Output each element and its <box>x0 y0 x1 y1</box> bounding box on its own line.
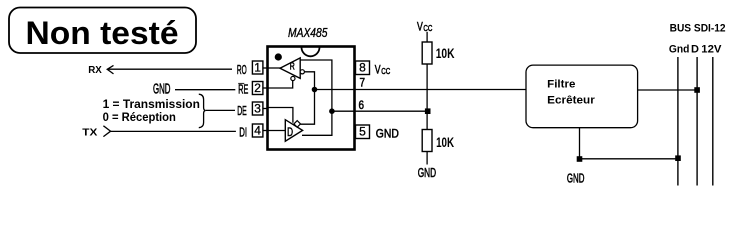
wire pin3 stub <box>263 108 268 110</box>
junction dot riser <box>577 156 583 162</box>
wire R2 to GND <box>426 152 428 165</box>
wire pin4 stub <box>263 130 268 132</box>
wire pin3 to driver enable <box>268 108 293 123</box>
svg-text:Gnd: Gnd <box>669 44 690 56</box>
svg-text:10K: 10K <box>436 45 455 61</box>
receiver R triangle <box>280 58 300 79</box>
wire driver B output <box>301 90 315 125</box>
wire Vcc to R1 <box>426 32 428 42</box>
wire driver A output <box>302 111 332 135</box>
brace <box>199 94 206 128</box>
wire pin1 to receiver apex <box>268 67 281 69</box>
wire pin2 stub <box>263 87 268 89</box>
junction dot bus Gnd <box>675 155 681 161</box>
pin box 8 <box>356 61 370 75</box>
filter box <box>526 65 638 128</box>
wire RX to RO <box>107 68 232 70</box>
svg-text:D: D <box>287 125 293 139</box>
receiver enable bubble <box>291 76 295 80</box>
svg-text:7: 7 <box>360 78 366 90</box>
driver D triangle <box>285 120 302 142</box>
label "Non testé" box <box>9 8 196 54</box>
junction dot bus D <box>694 87 700 93</box>
wire receiver A input <box>300 60 332 111</box>
svg-text:RO: RO <box>237 62 247 77</box>
chip notch <box>302 47 320 56</box>
bus wire 12V <box>712 57 714 186</box>
svg-text:6: 6 <box>359 100 365 112</box>
svg-text:GND: GND <box>153 81 171 98</box>
driver inverting-output diamond <box>294 121 301 128</box>
svg-text:5: 5 <box>359 125 366 139</box>
wire filter to bus D <box>638 89 698 91</box>
svg-text:GND: GND <box>418 166 436 180</box>
wire pin1 stub <box>263 67 268 69</box>
svg-text:V: V <box>375 63 381 77</box>
svg-text:2: 2 <box>254 81 261 95</box>
RE overline <box>238 83 244 85</box>
svg-text:GND: GND <box>567 171 585 185</box>
svg-text:1: 1 <box>254 60 261 74</box>
bus wire Gnd <box>677 57 679 186</box>
svg-text:D: D <box>691 44 699 56</box>
resistor R2 10K <box>422 130 432 152</box>
junction dot net B <box>312 87 318 93</box>
svg-text:0 = Réception: 0 = Réception <box>103 110 176 124</box>
wire pin4 to driver input <box>268 130 286 132</box>
svg-text:TX: TX <box>82 126 97 138</box>
junction dot pulldown <box>425 108 431 114</box>
svg-text:Filtre: Filtre <box>547 79 575 91</box>
svg-text:1 = Transmission: 1 = Transmission <box>103 97 200 111</box>
wire pin6 line <box>332 110 428 112</box>
pin box 2 <box>252 82 263 95</box>
svg-text:3: 3 <box>254 101 261 115</box>
wire pin2 to RE bubble <box>268 81 293 88</box>
pin box 1 <box>252 61 263 74</box>
resistor R1 10K <box>422 42 432 64</box>
svg-text:R: R <box>290 62 295 73</box>
pin-1 marker dot <box>275 53 282 60</box>
pin box 5 <box>356 125 370 139</box>
svg-text:DE: DE <box>237 103 247 118</box>
wire GND to RE <box>175 89 235 91</box>
wire TX to DI <box>111 130 236 132</box>
svg-text:MAX485: MAX485 <box>288 26 328 40</box>
pin box 4 <box>252 124 263 137</box>
wire filter GND riser <box>579 128 581 159</box>
svg-text:10K: 10K <box>436 134 454 150</box>
pin box 3 <box>252 102 263 115</box>
svg-text:4: 4 <box>254 123 261 137</box>
chevron TX <box>103 126 110 137</box>
wire pin7 line <box>315 89 527 91</box>
svg-text:V: V <box>417 20 423 34</box>
svg-text:Non testé: Non testé <box>26 15 179 51</box>
op-amp U1 MAX485 chip body <box>268 47 355 150</box>
svg-text:CC: CC <box>423 23 432 33</box>
junction dot net A <box>329 108 335 114</box>
wire brace to DE <box>206 109 235 111</box>
svg-text:8: 8 <box>359 61 366 75</box>
svg-text:Ecrêteur: Ecrêteur <box>547 94 595 106</box>
svg-text:RX: RX <box>88 64 102 76</box>
wire receiver B input <box>304 72 314 90</box>
wire GND to bus Gnd <box>580 158 679 160</box>
bus wire D <box>696 57 698 186</box>
svg-text:BUS SDI-12: BUS SDI-12 <box>670 23 726 35</box>
svg-text:12V: 12V <box>701 44 722 56</box>
wire R1 to R2 <box>426 64 428 130</box>
arrow head RX <box>107 65 113 74</box>
svg-text:GND: GND <box>376 126 399 140</box>
svg-text:DI: DI <box>239 124 247 139</box>
svg-text:CC: CC <box>381 66 390 76</box>
receiver inverting-input bubble <box>300 70 304 74</box>
